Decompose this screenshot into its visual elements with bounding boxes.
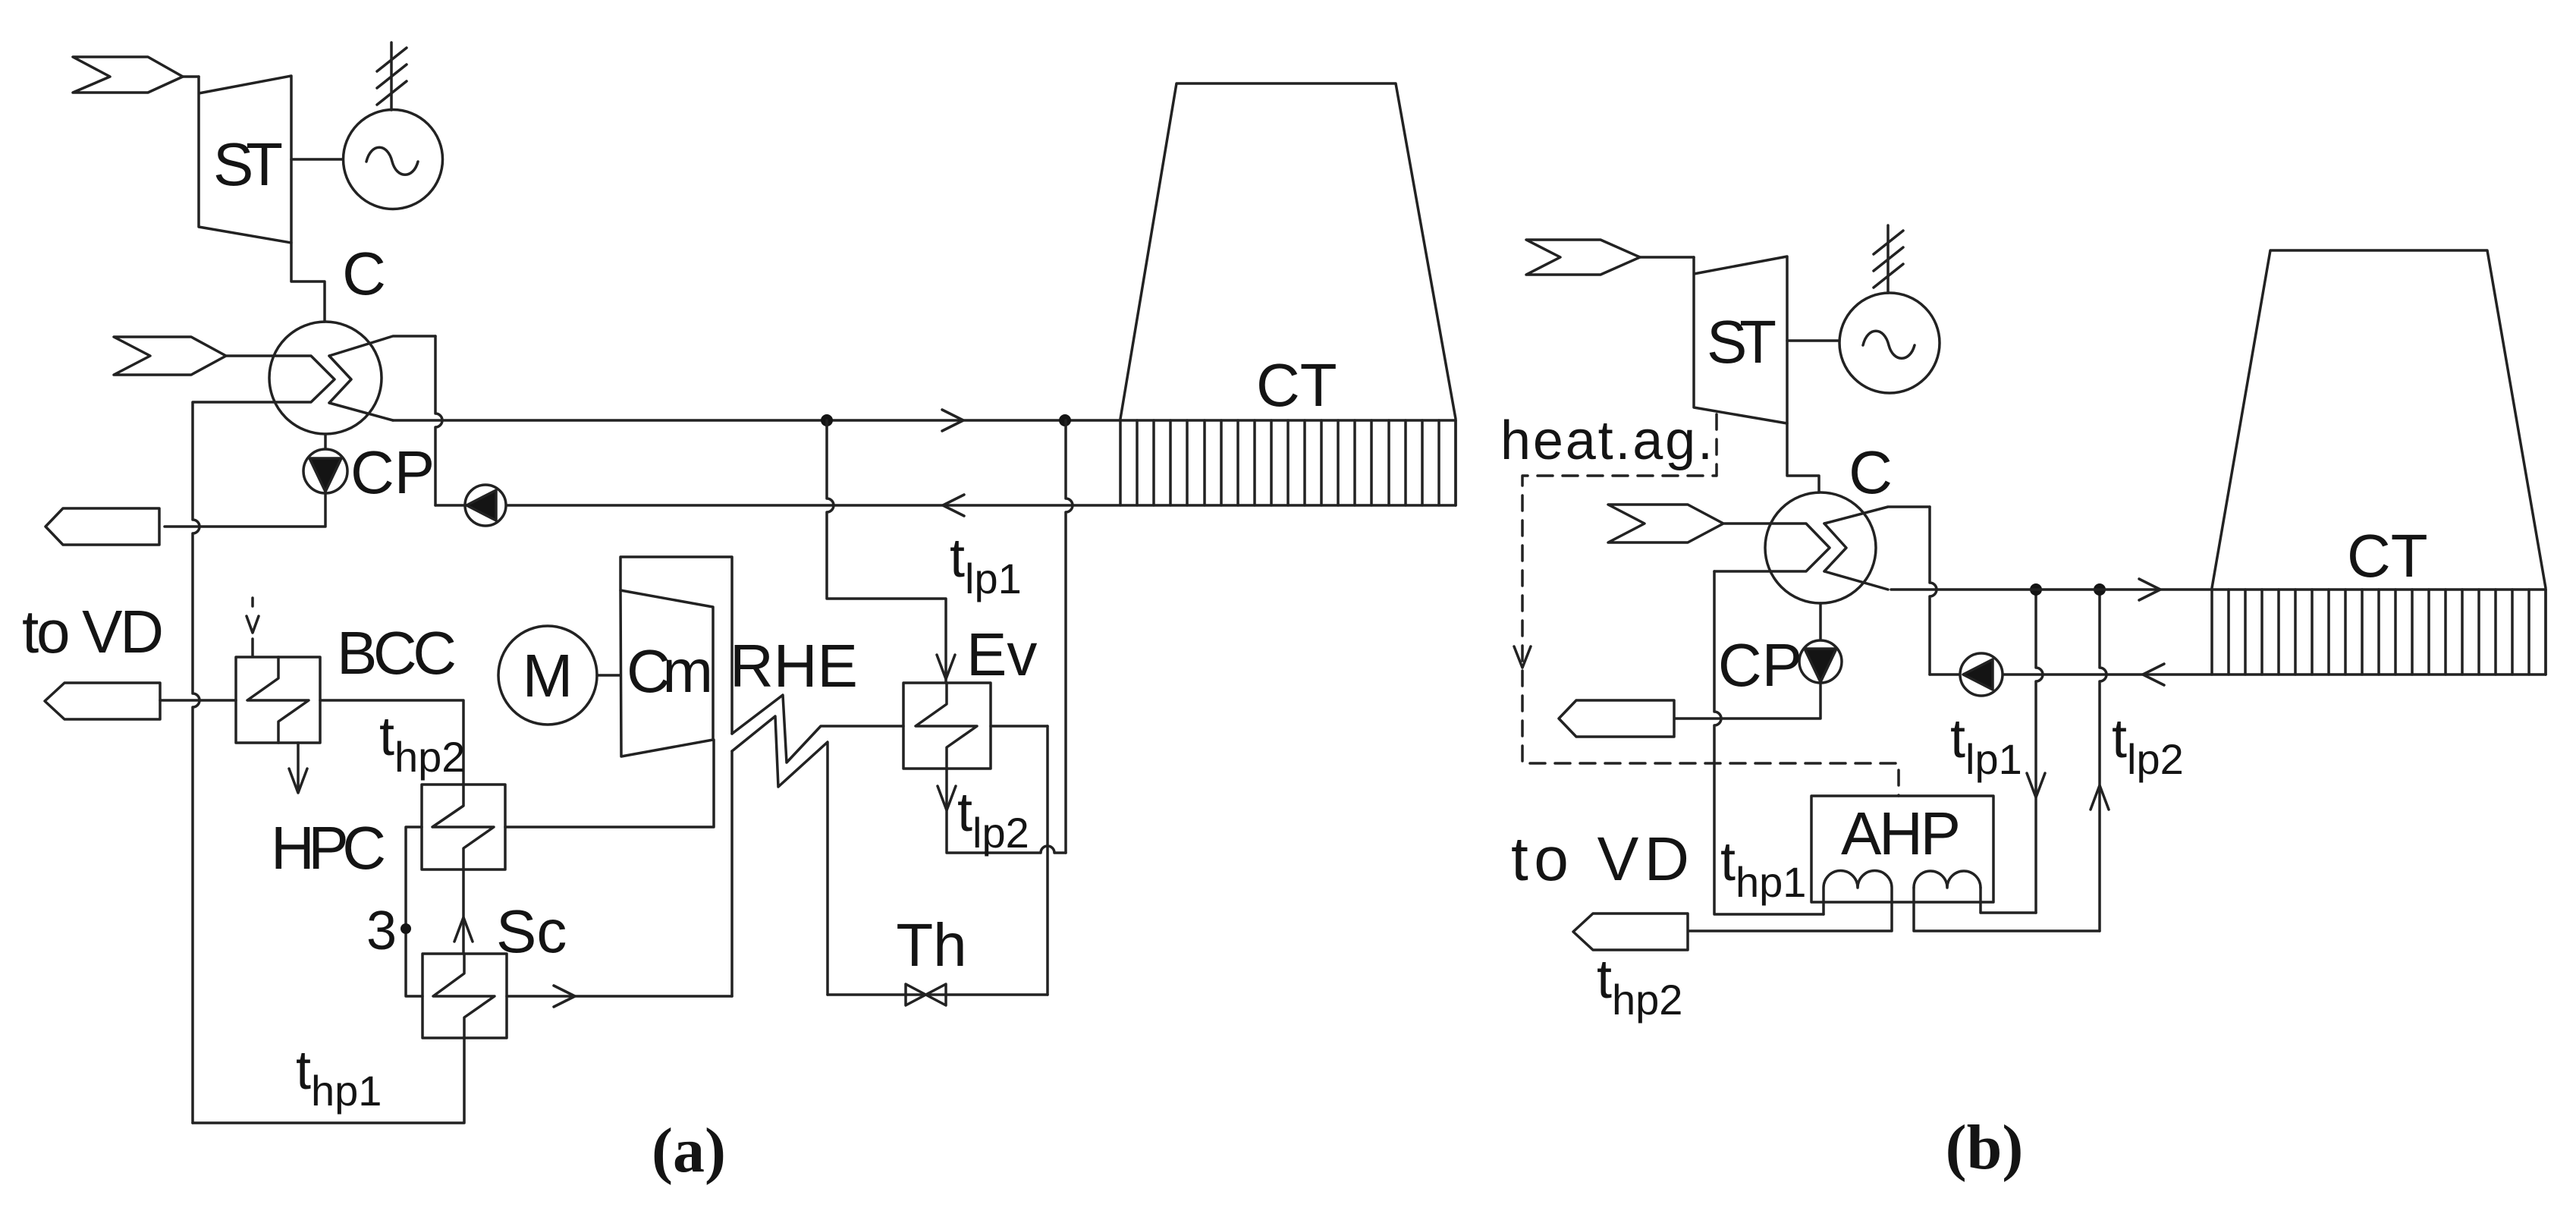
return line from CT with arrow (b) — [1930, 664, 2546, 685]
dashed vent arrow above BCC — [247, 598, 259, 656]
Ev internal symbol — [916, 683, 977, 769]
svg-text:thp2: thp2 — [379, 706, 465, 781]
wire: ST exhaust to condenser (b) — [1787, 423, 1819, 492]
AHP coil 2 right leg to t_lp1 (b) — [1981, 888, 2036, 913]
wire: condenser to CP pump (a) — [324, 434, 327, 449]
wire: Sc line vertical to RHE (a) — [730, 751, 734, 996]
generator (a) — [344, 110, 443, 209]
wire: main left riser with hops (a) — [193, 403, 199, 1123]
svg-text:RHE: RHE — [730, 632, 858, 700]
wire: CP outlet to network tag (a) — [165, 493, 325, 527]
tag: network water to consumers (a) — [46, 508, 159, 545]
svg-text:BCC: BCC — [337, 619, 457, 687]
condenser C (a) — [269, 322, 382, 434]
wire: BCC outlet to HPC (a) — [320, 700, 463, 785]
tag: t_hp2 heat supply outlet (b) — [1573, 914, 1688, 950]
svg-text:tlp2: tlp2 — [957, 782, 1029, 857]
generator grid connection slashes (b) — [1874, 225, 1903, 293]
CT basin right edge (a) — [1454, 420, 1457, 505]
wire: ST exhaust to condenser (a) — [291, 243, 325, 322]
svg-text:thp1: thp1 — [1720, 832, 1806, 906]
cooling tower CT shell (b) — [2212, 250, 2546, 588]
condenser heating symbol (b) — [1714, 507, 1930, 590]
svg-text:(b): (b) — [1946, 1112, 2024, 1183]
wire: HPC water inlet riser via node 3 (a) — [406, 827, 423, 996]
generator grid connection slashes (a) — [377, 42, 407, 110]
supply line to CT with arrow (b) — [1891, 579, 2546, 600]
svg-text:Th: Th — [896, 911, 966, 979]
RHE upper zigzag pipe (a) — [732, 695, 903, 763]
AHP coil 1 with legs (b) — [1688, 871, 1892, 932]
absorption heat pump AHP box (b) — [1811, 796, 1993, 902]
svg-text:CT: CT — [2347, 522, 2428, 590]
svg-text:Cm: Cm — [627, 637, 713, 705]
wire: Sc to HPC with up arrow (a) — [454, 870, 473, 954]
svg-text:tlp1: tlp1 — [950, 528, 1022, 602]
generator (b) — [1839, 293, 1940, 393]
wire: flag tip to ST inlet (b) — [1640, 256, 1694, 259]
evaporator Ev (a) — [903, 683, 991, 769]
svg-text:CP: CP — [350, 439, 435, 506]
wire: t_hp1 riser condenser to AHP (b) — [1714, 571, 1824, 914]
svg-text:C: C — [342, 240, 386, 307]
Sc internal symbol — [433, 954, 495, 1038]
wire: Ev feed from supply line with down arrow (a) — [827, 420, 955, 683]
pump CP (a) — [303, 449, 347, 493]
wire: motor shaft to Cm — [597, 674, 620, 677]
pump: circulating water (b) — [1960, 653, 2003, 696]
cooling tower CT shell (a) — [1120, 83, 1456, 419]
wire: t_lp2 riser with up arrow (b) — [2091, 590, 2109, 931]
tag: to VD (a) — [45, 683, 160, 719]
svg-text:(a): (a) — [652, 1115, 726, 1186]
junction dot chilled return (a) — [1059, 414, 1071, 426]
wire: condenser to CP pump (b) — [1819, 603, 1822, 640]
svg-text:ST: ST — [1707, 308, 1776, 376]
condenser C (b) — [1765, 492, 1876, 603]
wire: HPC steam inlet from Cm (a) — [505, 740, 714, 827]
wire: Ev refrigerant right leg (a) — [991, 726, 1048, 995]
svg-text:tlp2: tlp2 — [2112, 709, 2184, 783]
condenser heating symbol (a) — [193, 336, 435, 420]
AHP coil 2 left leg to t_lp2 riser (b) — [1914, 888, 2100, 931]
svg-text:C: C — [1849, 439, 1893, 506]
heat exchanger BCC (a) — [236, 657, 320, 743]
svg-text:to VD: to VD — [1511, 825, 1689, 894]
CT fill hatching (b) — [2212, 590, 2546, 675]
svg-text:tlp1: tlp1 — [1950, 709, 2022, 783]
CT basin right edge (b) — [2544, 590, 2547, 675]
wire: CP outlet to tag (b) — [1674, 683, 1820, 719]
heat exchanger Sc (a) — [423, 954, 507, 1038]
svg-text:HPC: HPC — [271, 814, 386, 882]
svg-text:thp1: thp1 — [296, 1040, 382, 1115]
svg-text:thp2: thp2 — [1597, 949, 1682, 1024]
valve Th (a) — [906, 984, 946, 1005]
flag: live steam inlet to ST (a) — [73, 57, 183, 93]
wire: Cm suction line (a) — [620, 557, 732, 734]
BCC internal symbol — [247, 657, 309, 743]
supply line to CT with arrow (a) — [393, 410, 1456, 431]
pump: circulating water (a) — [465, 485, 506, 526]
svg-text:CT: CT — [1256, 351, 1337, 419]
steam turbine ST (b) — [1694, 256, 1787, 423]
wire: throttle line (a) — [828, 993, 1048, 996]
node 3 junction dot — [401, 923, 411, 934]
RHE lower zigzag pipe (a) — [732, 716, 828, 995]
wire: ST shaft to generator (a) — [291, 158, 344, 161]
svg-text:heat.ag.: heat.ag. — [1500, 410, 1713, 471]
wire: Ev chilled outlet with down arrow (a) — [938, 769, 1066, 853]
wire: condenser cooling water riser (b) — [1930, 507, 1937, 675]
flag: steam to condenser (b) — [1608, 505, 1723, 542]
svg-text:Ev: Ev — [966, 621, 1037, 688]
wire: bottom return loop t_hp1 (a) — [193, 1038, 464, 1123]
motor M (a) — [498, 626, 597, 725]
return line from CT with arrow (a) — [435, 495, 1456, 516]
tag: condensate outlet (b) — [1559, 700, 1674, 737]
svg-text:to VD: to VD — [22, 598, 164, 665]
compressor Cm (a) — [620, 590, 713, 756]
pump CP (b) — [1799, 640, 1842, 683]
heat exchanger HPC (a) — [422, 785, 505, 870]
BCC condensate drain arrow — [289, 743, 307, 793]
junction dot t_lp1 (b) — [2030, 583, 2042, 596]
HPC internal symbol — [432, 785, 494, 870]
wire: t_lp1 drop with down arrow (b) — [2027, 590, 2045, 913]
wire: condenser cooling water riser (a) — [435, 336, 442, 505]
steam turbine ST (a) — [199, 76, 291, 243]
flag: live steam inlet to ST (b) — [1526, 240, 1640, 275]
wire: tag to BCC inlet (a) — [160, 699, 236, 702]
AHP coil 2 arcs (b) — [1914, 871, 1981, 888]
junction dot t_lp2 (b) — [2094, 583, 2106, 596]
wire: Sc outlet to RHE line with arrow (a) — [507, 986, 732, 1007]
wire: ST shaft to generator (b) — [1787, 339, 1840, 342]
svg-text:AHP: AHP — [1841, 800, 1961, 867]
svg-text:ST: ST — [213, 131, 283, 198]
svg-text:3: 3 — [366, 901, 397, 961]
wire: chilled water riser to supply (a) — [1066, 420, 1073, 853]
svg-text:M: M — [523, 642, 573, 709]
dashed heating agent line (b) — [1522, 414, 1899, 796]
junction dot supply tap (a) — [821, 414, 833, 426]
wire: flag tip to ST inlet (a) — [183, 75, 199, 78]
dashed line down arrow (b) — [1514, 646, 1531, 668]
svg-text:CP: CP — [1718, 631, 1802, 699]
CT fill hatching (a) — [1120, 420, 1456, 505]
flag: steam to condenser (a) — [114, 337, 226, 375]
